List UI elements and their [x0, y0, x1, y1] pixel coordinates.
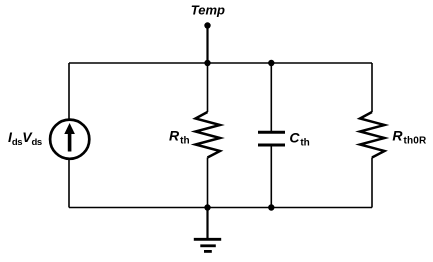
svg-text:Cth: Cth	[289, 129, 309, 148]
svg-text:Temp: Temp	[191, 2, 225, 17]
svg-text:IdsVds: IdsVds	[8, 129, 42, 148]
svg-text:Rth: Rth	[169, 128, 190, 147]
svg-text:Rth0R: Rth0R	[392, 128, 427, 147]
